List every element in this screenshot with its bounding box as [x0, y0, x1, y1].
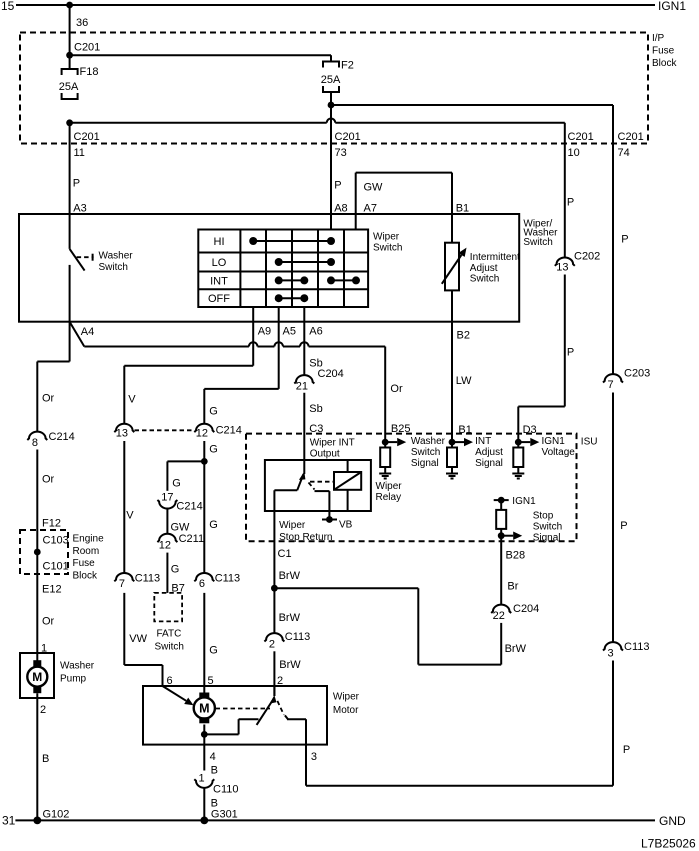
svg-text:A3: A3	[73, 203, 86, 215]
svg-text:31: 31	[2, 814, 16, 828]
washer switch signal arrow	[385, 436, 445, 469]
fuse F18 25A	[59, 66, 99, 99]
wire BrW from C204-22 to BrW junction	[274, 588, 526, 664]
wiper switch contact table	[198, 230, 402, 308]
svg-text:C201: C201	[568, 131, 594, 143]
wiper motor box	[143, 686, 360, 745]
wiper switch LO row contacts	[275, 258, 335, 266]
connector C214 pin 8	[27, 431, 74, 449]
svg-text:A7: A7	[364, 203, 377, 215]
svg-text:C201: C201	[74, 131, 100, 143]
terminal A4 wire and label	[70, 322, 386, 347]
node G102	[33, 817, 41, 825]
washer switch blade	[70, 249, 134, 273]
engine room fuse block (dashed)	[20, 530, 104, 581]
park switch left contact from motor	[201, 719, 259, 744]
svg-text:Adjust: Adjust	[470, 263, 498, 274]
svg-text:ISU: ISU	[581, 437, 598, 448]
svg-text:C113: C113	[135, 573, 160, 585]
svg-text:P: P	[73, 178, 80, 190]
svg-text:Switch: Switch	[533, 521, 562, 532]
connector C214 dashed gang line	[135, 429, 195, 431]
svg-text:11: 11	[74, 147, 85, 159]
svg-text:C1: C1	[278, 548, 292, 560]
wire C201-10 right column P	[565, 123, 594, 257]
svg-text:BrW: BrW	[505, 643, 527, 655]
IGN1 voltage arrow	[518, 436, 575, 458]
wire E12 Or to washer pump	[41, 584, 62, 655]
svg-text:Signal: Signal	[475, 458, 503, 469]
svg-text:7: 7	[119, 578, 125, 590]
svg-text:6: 6	[199, 578, 205, 590]
svg-text:BrW: BrW	[279, 612, 301, 624]
svg-text:G: G	[172, 478, 181, 490]
relay coil	[334, 460, 361, 511]
wire A9 to connector C214-13 (V)	[124, 307, 253, 424]
wire G B7 to FATC switch	[167, 553, 184, 595]
svg-text:Signal: Signal	[411, 458, 439, 469]
park switch blade pin 2	[257, 686, 277, 725]
svg-text:BrW: BrW	[279, 570, 301, 582]
svg-text:12: 12	[196, 428, 208, 440]
svg-text:4: 4	[210, 751, 216, 763]
connector C113 pin 7	[114, 573, 160, 590]
svg-text:LO: LO	[212, 257, 227, 269]
svg-text:Or: Or	[42, 616, 55, 628]
connector C202 pin 13	[555, 251, 600, 274]
svg-text:Switch: Switch	[470, 274, 499, 285]
FATC switch (dashed)	[154, 593, 184, 652]
wiper stop return label	[279, 520, 332, 543]
junction on IGN1 rail	[66, 2, 73, 9]
node B1 junction	[449, 439, 456, 446]
stop switch signal IGN1 node	[494, 496, 536, 507]
wire F2 output to right column	[331, 104, 613, 106]
svg-text:C113: C113	[215, 573, 240, 585]
connector C203 pin 7	[603, 368, 650, 392]
svg-text:A4: A4	[81, 326, 94, 338]
svg-text:A9: A9	[258, 326, 271, 338]
svg-text:B2: B2	[457, 330, 470, 342]
GW loop A7 to B1	[356, 173, 469, 243]
svg-text:Fuse: Fuse	[73, 558, 96, 569]
svg-text:G: G	[209, 405, 218, 417]
svg-text:17: 17	[161, 491, 173, 503]
wire G from C214-12 to C113-6	[204, 441, 218, 573]
svg-text:Washer: Washer	[60, 661, 95, 672]
node VB	[322, 516, 353, 530]
svg-text:74: 74	[618, 147, 630, 159]
svg-text:Stop: Stop	[533, 511, 554, 522]
svg-text:2: 2	[269, 639, 275, 651]
ground D3	[512, 467, 524, 479]
svg-text:Signal: Signal	[533, 532, 561, 543]
svg-text:36: 36	[76, 17, 88, 29]
svg-text:8: 8	[32, 437, 38, 449]
svg-text:GND: GND	[659, 814, 686, 828]
svg-text:Fuse: Fuse	[652, 46, 675, 57]
svg-text:Block: Block	[652, 58, 677, 69]
connector C113 pin 6	[194, 573, 240, 590]
svg-text:C110: C110	[213, 784, 238, 796]
wire BrW to wiper motor pin 2	[274, 651, 301, 696]
wire VW from C113-7 to motor pin 6	[124, 593, 162, 686]
svg-text:25A: 25A	[59, 81, 79, 93]
svg-text:G: G	[171, 564, 180, 576]
svg-text:G: G	[209, 519, 218, 531]
svg-text:I/P: I/P	[652, 33, 665, 44]
wire hop over A6	[300, 342, 309, 346]
svg-text:Switch: Switch	[523, 237, 552, 248]
wire Sb C3 into ISU	[304, 393, 323, 474]
svg-text:C214: C214	[176, 501, 202, 513]
svg-text:IGN1: IGN1	[512, 496, 536, 507]
svg-text:Wiper: Wiper	[333, 692, 360, 703]
connector C110 pin 1	[194, 773, 238, 796]
svg-text:G: G	[209, 443, 218, 455]
svg-text:Washer: Washer	[411, 436, 446, 447]
svg-text:BrW: BrW	[279, 659, 301, 671]
ground B25	[379, 467, 391, 479]
node G branch junction	[201, 458, 208, 465]
wiper switch HI row contacts	[249, 237, 335, 245]
ground B1	[446, 467, 458, 479]
svg-text:15: 15	[1, 0, 15, 13]
wiper motor pin 6 arrow input	[163, 675, 194, 705]
svg-text:P: P	[567, 196, 574, 208]
wire B to ground G301	[204, 788, 238, 821]
svg-text:F12: F12	[42, 518, 61, 530]
wire F18 output line with hop over A8 wire	[70, 119, 565, 123]
svg-text:22: 22	[493, 610, 505, 622]
svg-text:2: 2	[40, 704, 46, 716]
svg-text:M: M	[199, 702, 209, 716]
node B25 junction	[382, 439, 389, 446]
intermittent adjust switch B1-B2	[442, 243, 520, 322]
svg-text:Wiper: Wiper	[279, 520, 306, 531]
ground rail 31/GND	[2, 814, 686, 828]
svg-text:OFF: OFF	[208, 293, 230, 305]
svg-text:B25: B25	[391, 423, 411, 435]
wire P from C203 down right side	[613, 393, 628, 643]
svg-text:C202: C202	[574, 251, 600, 263]
svg-text:1: 1	[199, 773, 205, 785]
svg-text:V: V	[128, 394, 136, 406]
svg-text:Intermittent: Intermittent	[470, 252, 520, 263]
svg-text:Voltage: Voltage	[542, 447, 576, 458]
connector C211 pin 12	[157, 533, 204, 552]
svg-text:V: V	[126, 510, 134, 522]
svg-text:Wiper INT: Wiper INT	[310, 438, 355, 449]
svg-text:F2: F2	[341, 60, 354, 72]
wire A4 branch (Or) to ISU B25	[385, 347, 403, 448]
svg-text:C201: C201	[618, 131, 644, 143]
stop switch signal arrow	[498, 511, 562, 605]
node C201-36 junction	[66, 52, 73, 59]
wire washer switch lower contact to A4	[69, 265, 71, 322]
wire P from C202 to D3 corner	[518, 275, 574, 443]
svg-text:7: 7	[608, 379, 614, 391]
svg-text:Output: Output	[310, 449, 340, 460]
ISU module box (dashed)	[246, 434, 597, 542]
svg-text:F18: F18	[80, 66, 99, 78]
connector C214 pin 13	[114, 424, 134, 440]
wiper/washer switch assembly box	[19, 214, 558, 322]
svg-text:21: 21	[296, 381, 308, 393]
svg-text:M: M	[32, 670, 42, 684]
svg-text:HI: HI	[214, 236, 225, 248]
svg-text:B1: B1	[458, 424, 471, 436]
svg-text:C101: C101	[43, 561, 69, 573]
wire V from C214-13 to C113-7	[124, 441, 134, 573]
wire G from C113-6 to motor pin 5	[204, 593, 218, 693]
node G301	[200, 817, 208, 825]
relay left contact to wiper stop return	[274, 490, 297, 633]
svg-text:Engine: Engine	[73, 534, 105, 545]
wire A6 (Sb) to connector C204-21	[304, 307, 322, 375]
INT adjust signal arrow	[452, 436, 503, 469]
svg-text:Stop Return: Stop Return	[279, 532, 332, 543]
svg-text:INT: INT	[475, 436, 491, 447]
svg-text:Block: Block	[73, 570, 98, 581]
svg-text:Sb: Sb	[309, 403, 322, 415]
svg-text:B: B	[42, 753, 49, 765]
svg-text:Or: Or	[42, 393, 55, 405]
svg-text:25A: 25A	[321, 74, 341, 86]
svg-text:13: 13	[116, 428, 128, 440]
wire P from C113-3 to wiper motor pin 3	[306, 661, 630, 786]
svg-text:C204: C204	[318, 368, 344, 380]
resistor D3	[513, 442, 523, 467]
svg-text:VW: VW	[129, 633, 147, 645]
svg-text:Adjust: Adjust	[475, 447, 503, 458]
node F2 output junction	[328, 102, 335, 109]
resistor B25	[380, 448, 390, 468]
svg-text:E12: E12	[42, 584, 62, 596]
wire B2 (LW) to ISU B1	[452, 322, 472, 448]
svg-text:L7B25026: L7B25026	[641, 837, 696, 851]
svg-text:C113: C113	[624, 641, 649, 653]
wire F18 output junction	[66, 119, 73, 126]
svg-text:GW: GW	[364, 182, 384, 194]
svg-text:C203: C203	[624, 368, 650, 380]
svg-text:P: P	[334, 180, 341, 192]
wire C1 BrW labels	[278, 548, 301, 624]
svg-text:C214: C214	[49, 431, 75, 443]
node 15 / IGN1 power rail	[1, 0, 686, 13]
svg-text:73: 73	[335, 147, 347, 159]
wire washer pump pin 2 (B) to ground G102	[37, 693, 69, 820]
svg-text:P: P	[623, 744, 630, 756]
svg-text:Or: Or	[42, 474, 55, 486]
svg-text:12: 12	[159, 540, 171, 552]
svg-text:Or: Or	[390, 383, 403, 395]
svg-text:13: 13	[556, 262, 568, 274]
park switch control dashed link	[216, 708, 271, 710]
svg-text:Switch: Switch	[411, 447, 440, 458]
svg-text:C204: C204	[513, 603, 539, 615]
wire G branch to C214-17	[167, 461, 204, 490]
svg-text:10: 10	[568, 147, 580, 159]
svg-text:Switch: Switch	[99, 262, 128, 273]
relay right contact to VB	[309, 483, 330, 520]
svg-text:B1: B1	[456, 203, 469, 215]
wire GW to C211-12	[167, 508, 190, 533]
svg-text:A6: A6	[309, 326, 322, 338]
svg-text:INT: INT	[210, 275, 228, 287]
svg-text:B: B	[211, 765, 218, 777]
svg-text:5: 5	[208, 675, 214, 687]
wire Or to engine room fuse block	[37, 450, 61, 661]
connector C214 pin 17	[157, 491, 202, 512]
svg-text:Pump: Pump	[60, 674, 87, 685]
connector C113 pin 3	[603, 641, 649, 659]
relay switch blade	[297, 472, 305, 491]
svg-text:G: G	[209, 645, 218, 657]
svg-text:Washer: Washer	[99, 251, 134, 262]
I/P fuse block (dashed)	[20, 33, 677, 144]
wire A8 feed (P) with C201-73	[331, 105, 361, 230]
node D3 junction	[515, 439, 522, 446]
svg-text:C113: C113	[285, 631, 310, 643]
wiper relay box	[265, 460, 402, 511]
wiper switch INT row contacts	[275, 276, 360, 284]
node BrW junction	[271, 585, 278, 592]
svg-text:C201: C201	[74, 42, 100, 54]
svg-text:LW: LW	[456, 375, 472, 387]
connector C204 pin 21	[294, 368, 343, 393]
svg-text:G102: G102	[43, 809, 70, 821]
washer pump	[20, 653, 95, 698]
connector C214 pin 12	[194, 424, 242, 440]
svg-text:GW: GW	[171, 522, 191, 534]
wire feed to fuse F2	[70, 54, 331, 56]
wiper motor armature M	[194, 693, 215, 724]
svg-text:A5: A5	[283, 326, 296, 338]
svg-text:C201: C201	[335, 131, 361, 143]
svg-text:IGN1: IGN1	[542, 436, 566, 447]
wire C201-74 far right column P	[613, 105, 644, 374]
svg-text:3: 3	[311, 751, 317, 763]
svg-text:B28: B28	[506, 550, 526, 562]
connector C204 pin 22	[491, 603, 539, 622]
svg-text:C214: C214	[216, 425, 242, 437]
wire A5 to connector C214-12 (G)	[204, 307, 278, 424]
svg-text:Br: Br	[507, 580, 518, 592]
wire 36 from rail to fuse block	[70, 5, 101, 69]
svg-text:G301: G301	[211, 809, 238, 821]
svg-text:Wiper: Wiper	[376, 481, 403, 492]
resistor B1	[447, 448, 457, 468]
svg-text:P: P	[621, 233, 628, 245]
fuse F2 25A	[321, 55, 354, 105]
svg-text:Switch: Switch	[373, 243, 402, 254]
svg-text:D3: D3	[523, 424, 537, 436]
svg-text:Motor: Motor	[333, 705, 359, 716]
park switch right contact to pin 3	[277, 701, 317, 763]
relay control dashed link	[310, 481, 334, 483]
resistor stop switch	[496, 500, 506, 529]
svg-text:Switch: Switch	[155, 641, 184, 652]
svg-text:VB: VB	[339, 520, 353, 531]
svg-text:P: P	[620, 520, 627, 532]
svg-text:P: P	[567, 346, 574, 358]
svg-text:A8: A8	[334, 203, 347, 215]
connector C113 pin 2	[264, 631, 310, 651]
svg-text:C103: C103	[43, 535, 69, 547]
svg-text:C211: C211	[179, 533, 204, 545]
svg-text:FATC: FATC	[157, 629, 182, 640]
svg-text:Relay: Relay	[376, 492, 402, 503]
svg-text:3: 3	[608, 647, 614, 659]
node C103/C101 junction	[34, 549, 41, 556]
wire motor pin 4 (B) to C110	[204, 745, 218, 777]
svg-text:Wiper: Wiper	[373, 232, 400, 243]
wire A3 feed (P) with C201-11	[70, 123, 100, 249]
wire A4 to washer pump column (Or)	[37, 322, 69, 432]
terminal labels A9 A5 A6 B2	[258, 326, 470, 342]
wiper INT output label	[310, 438, 355, 460]
wiper switch OFF row contacts	[275, 294, 309, 302]
svg-text:Room: Room	[73, 546, 100, 557]
svg-text:IGN1: IGN1	[658, 0, 686, 13]
svg-text:6: 6	[167, 675, 173, 687]
